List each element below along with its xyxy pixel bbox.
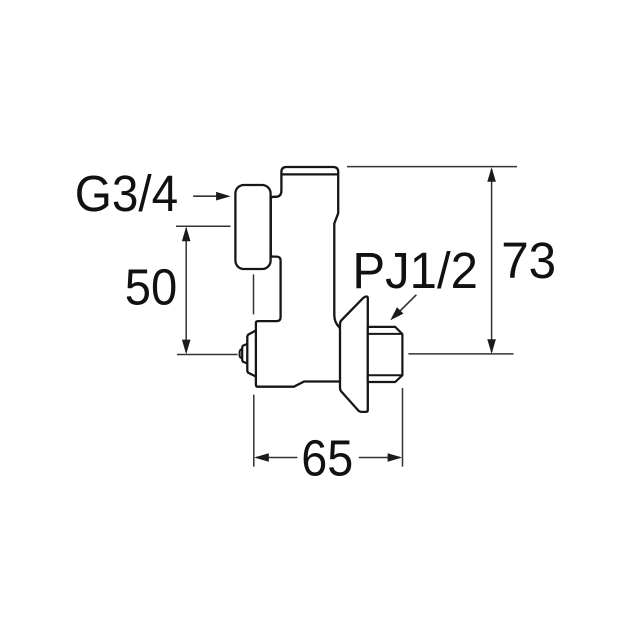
label PJ1/2 arrowhead: [390, 307, 403, 320]
svg-text:50: 50: [125, 259, 178, 316]
dim 50 extension bottom: [177, 354, 238, 356]
svg-text:G3/4: G3/4: [75, 165, 179, 222]
escutcheon flange: [340, 297, 368, 412]
svg-text:65: 65: [301, 430, 353, 487]
thread chamfer line top: [368, 333, 402, 335]
dim 65 extension right: [402, 388, 404, 467]
dim 50 extension top: [176, 225, 231, 227]
label PJ1/2 leader line: [398, 295, 417, 314]
thread chamfer line bottom: [368, 374, 402, 376]
center line below connector: [253, 274, 255, 314]
PJ1/2 thread: [368, 327, 403, 382]
dim 50 line: [185, 228, 187, 353]
dim 65 arrow left: [254, 453, 269, 462]
dim 50 arrow up: [182, 227, 191, 242]
dim 73 line: [491, 169, 493, 352]
bottom-left cap step 3: [240, 348, 244, 359]
body outline: [256, 167, 340, 387]
dim 65 line left segment: [256, 457, 297, 459]
dim 65 arrow right: [388, 453, 403, 462]
bottom-left cap step 1: [247, 330, 256, 376]
bottom-left cap step 2: [242, 344, 248, 364]
top cap bottom line: [281, 173, 338, 175]
dim 73 extension bottom: [408, 353, 513, 355]
dim 73 arrow up: [487, 167, 496, 182]
dim 65 extension left: [253, 395, 255, 467]
dim 73 extension top: [347, 166, 517, 168]
G3/4 connector: [235, 185, 270, 269]
label G3/4 arrow line: [193, 195, 218, 197]
svg-text:PJ1/2: PJ1/2: [352, 242, 478, 299]
svg-text:73: 73: [501, 232, 556, 289]
dim 73 arrow down: [487, 339, 496, 354]
label G3/4 arrowhead: [216, 192, 231, 201]
dim 65 line right segment: [359, 457, 400, 459]
dim 50 arrow down: [182, 340, 191, 355]
